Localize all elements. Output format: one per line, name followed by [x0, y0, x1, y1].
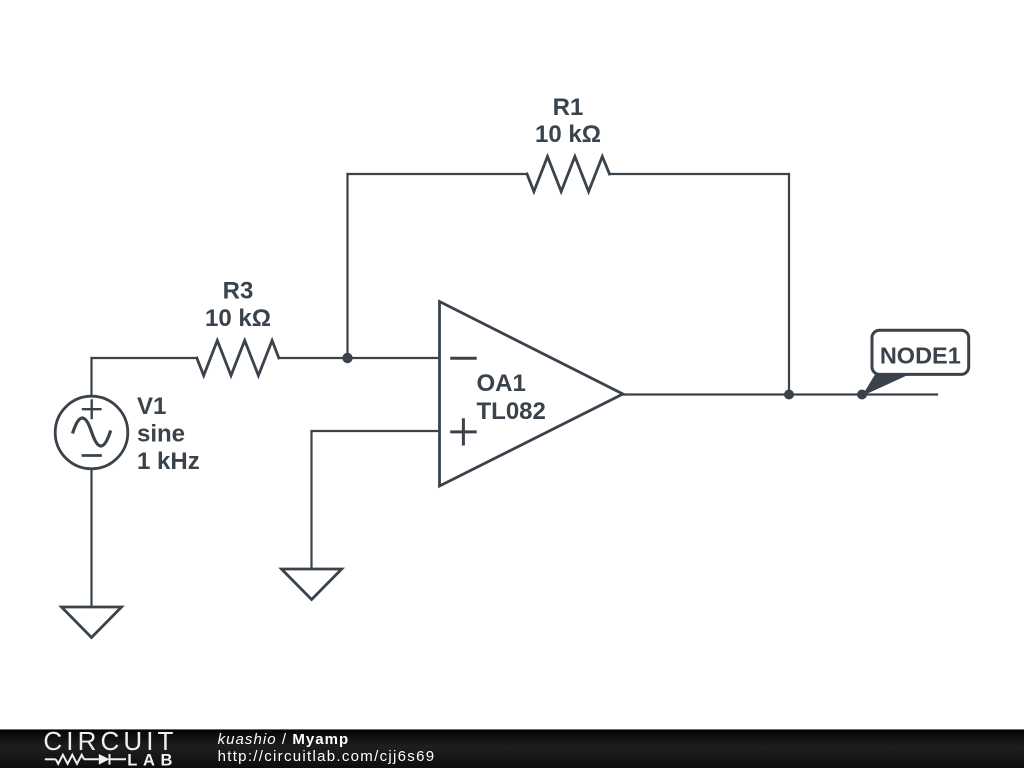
label OA1 — [477, 370, 546, 425]
wire feedback left vertical — [346, 174, 348, 358]
svg-text:sine: sine — [137, 420, 185, 447]
label R1 — [535, 94, 601, 148]
node NODE1 dot — [857, 390, 867, 400]
CircuitLab logo — [43, 726, 178, 768]
label R3 — [205, 278, 271, 333]
wire V1 bottom — [90, 469, 92, 607]
resistor R3 — [197, 341, 279, 376]
ground below non-inverting input — [282, 569, 342, 600]
svg-text:kuashio / Myamp: kuashio / Myamp — [218, 731, 350, 748]
svg-text:R1: R1 — [553, 94, 584, 121]
wire feedback right vertical — [788, 174, 790, 395]
wire output — [623, 393, 937, 395]
svg-text:10 kΩ: 10 kΩ — [205, 305, 271, 332]
wire input — [92, 357, 440, 359]
svg-text:TL082: TL082 — [477, 398, 546, 425]
op-amp OA1 — [440, 302, 623, 487]
svg-text:http://circuitlab.com/cjj6s69: http://circuitlab.com/cjj6s69 — [218, 748, 436, 765]
voltage source V1 — [55, 396, 128, 469]
svg-text:LAB: LAB — [127, 751, 178, 768]
svg-text:R3: R3 — [223, 278, 254, 305]
node junction inverting input — [342, 353, 352, 363]
svg-text:10 kΩ: 10 kΩ — [535, 121, 601, 148]
svg-text:1 kHz: 1 kHz — [137, 448, 200, 475]
resistor R1 — [527, 157, 610, 192]
svg-text:OA1: OA1 — [477, 370, 526, 397]
flag NODE1 — [862, 330, 969, 396]
svg-text:V1: V1 — [137, 393, 166, 420]
svg-text:NODE1: NODE1 — [880, 343, 961, 369]
ground below V1 — [62, 607, 122, 638]
wire non-inverting input — [312, 431, 440, 569]
wire feedback top — [348, 173, 790, 175]
footer bar — [0, 729, 1024, 768]
label V1 — [137, 393, 200, 475]
node junction feedback output — [784, 390, 794, 400]
wire V1 top — [90, 358, 92, 396]
